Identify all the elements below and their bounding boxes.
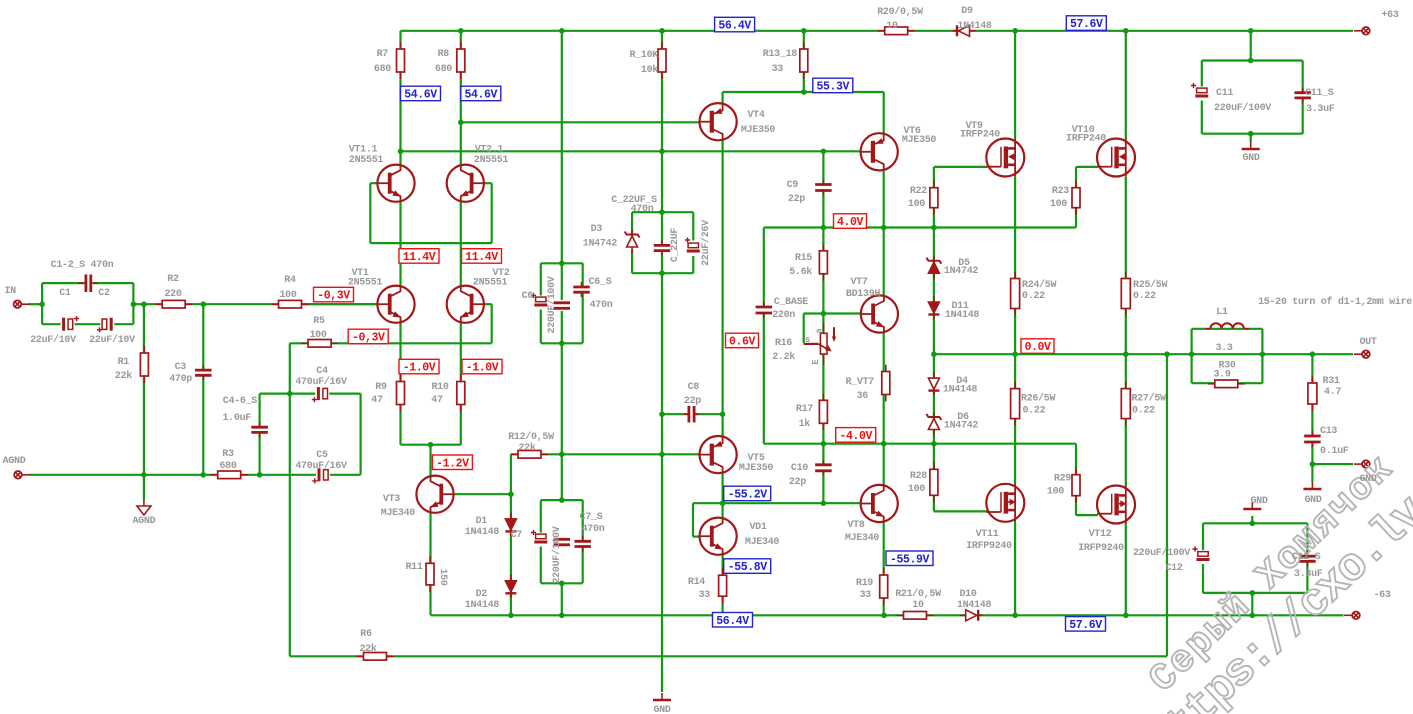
svg-text:VT1.1: VT1.1 bbox=[349, 145, 378, 156]
svg-text:MJE350: MJE350 bbox=[739, 463, 774, 474]
svg-text:220UF/100V: 220UF/100V bbox=[551, 526, 563, 583]
svg-text:C4: C4 bbox=[316, 366, 328, 377]
svg-text:33: 33 bbox=[860, 590, 872, 601]
svg-text:-0,3V: -0,3V bbox=[352, 332, 385, 345]
svg-text:GND: GND bbox=[1359, 474, 1376, 485]
svg-text:R16: R16 bbox=[775, 338, 792, 349]
svg-text:C1-2_S 470n: C1-2_S 470n bbox=[51, 260, 114, 271]
svg-text:470uF/16V: 470uF/16V bbox=[295, 376, 347, 388]
svg-text:R22: R22 bbox=[910, 186, 927, 197]
svg-text:R28: R28 bbox=[910, 471, 927, 482]
svg-text:VT4: VT4 bbox=[747, 110, 764, 121]
svg-text:-1.0V: -1.0V bbox=[403, 362, 436, 375]
svg-text:1N4742: 1N4742 bbox=[944, 421, 979, 432]
svg-text:2N5551: 2N5551 bbox=[349, 155, 384, 166]
svg-text:2.2k: 2.2k bbox=[772, 351, 795, 363]
svg-text:IRFP9240: IRFP9240 bbox=[1078, 543, 1124, 554]
svg-text:47: 47 bbox=[431, 395, 443, 406]
svg-text:4.7: 4.7 bbox=[1324, 387, 1341, 398]
svg-text:VT3: VT3 bbox=[383, 494, 400, 505]
svg-text:470p: 470p bbox=[169, 374, 192, 385]
svg-text:C5: C5 bbox=[316, 450, 328, 461]
svg-text:E: E bbox=[811, 359, 821, 365]
svg-text:R29: R29 bbox=[1054, 474, 1071, 485]
svg-text:1N4742: 1N4742 bbox=[944, 266, 979, 277]
svg-text:GND: GND bbox=[1250, 496, 1267, 507]
svg-text:C13: C13 bbox=[1320, 426, 1337, 437]
svg-text:C7: C7 bbox=[511, 530, 523, 541]
svg-text:-1.2V: -1.2V bbox=[436, 457, 469, 470]
svg-text:-1.0V: -1.0V bbox=[466, 362, 499, 375]
svg-text:C2: C2 bbox=[98, 288, 110, 299]
svg-text:OUT: OUT bbox=[1359, 337, 1376, 348]
svg-text:VT8: VT8 bbox=[847, 520, 864, 531]
svg-text:C12: C12 bbox=[1165, 563, 1182, 574]
svg-text:VD1: VD1 bbox=[749, 522, 766, 533]
svg-text:C8: C8 bbox=[688, 382, 700, 393]
svg-text:R_10K: R_10K bbox=[629, 50, 658, 61]
svg-text:MJE350: MJE350 bbox=[741, 125, 776, 136]
svg-text:IRFP240: IRFP240 bbox=[960, 130, 1000, 141]
svg-text:56.4V: 56.4V bbox=[718, 20, 751, 33]
svg-text:1N4148: 1N4148 bbox=[465, 527, 500, 538]
svg-text:100: 100 bbox=[1047, 487, 1064, 498]
svg-text:R_VT7: R_VT7 bbox=[845, 377, 874, 388]
svg-text:C10: C10 bbox=[791, 463, 808, 474]
svg-text:R23: R23 bbox=[1052, 186, 1069, 197]
svg-text:R10: R10 bbox=[431, 382, 448, 393]
svg-text:680: 680 bbox=[374, 64, 391, 75]
svg-text:150: 150 bbox=[437, 568, 448, 585]
svg-text:22p: 22p bbox=[789, 477, 806, 488]
svg-text:R24/5W: R24/5W bbox=[1022, 279, 1057, 291]
svg-text:C4-6_S: C4-6_S bbox=[223, 396, 258, 407]
svg-text:R3: R3 bbox=[222, 449, 234, 460]
svg-text:GND: GND bbox=[1242, 153, 1259, 164]
svg-text:1k: 1k bbox=[799, 418, 811, 430]
svg-text:R12/0,5W: R12/0,5W bbox=[508, 431, 554, 443]
svg-text:100: 100 bbox=[309, 330, 326, 341]
svg-text:0.22: 0.22 bbox=[1022, 291, 1045, 302]
svg-text:R15: R15 bbox=[795, 253, 812, 264]
svg-text:470n: 470n bbox=[582, 524, 605, 535]
svg-text:-4.0V: -4.0V bbox=[839, 430, 872, 443]
svg-text:D3: D3 bbox=[591, 224, 603, 235]
svg-text:220UF/100V: 220UF/100V bbox=[546, 276, 558, 333]
svg-text:100: 100 bbox=[279, 290, 296, 301]
svg-text:11.4V: 11.4V bbox=[403, 251, 436, 264]
svg-text:1N4148: 1N4148 bbox=[465, 600, 500, 611]
svg-text:54.6V: 54.6V bbox=[404, 89, 437, 102]
svg-text:R11: R11 bbox=[405, 562, 422, 573]
svg-text:0.0V: 0.0V bbox=[1024, 341, 1051, 354]
svg-text:57.6V: 57.6V bbox=[1070, 18, 1103, 31]
svg-text:11.4V: 11.4V bbox=[465, 251, 498, 264]
svg-text:680: 680 bbox=[435, 64, 452, 75]
svg-text:C12_S: C12_S bbox=[1292, 552, 1321, 563]
svg-text:R21/0,5W: R21/0,5W bbox=[895, 588, 941, 600]
svg-text:220uF/100V: 220uF/100V bbox=[1214, 102, 1271, 114]
svg-text:5.6k: 5.6k bbox=[789, 266, 812, 278]
svg-text:R25/5W: R25/5W bbox=[1133, 279, 1168, 291]
svg-text:2N5551: 2N5551 bbox=[473, 278, 508, 289]
svg-text:L1: L1 bbox=[1216, 307, 1228, 318]
svg-text:R20/0,5W: R20/0,5W bbox=[877, 6, 923, 18]
svg-text:2N5551: 2N5551 bbox=[348, 278, 383, 289]
svg-text:VT7: VT7 bbox=[850, 277, 867, 288]
svg-text:3.9: 3.9 bbox=[1213, 370, 1230, 381]
svg-text:3.3uF: 3.3uF bbox=[1306, 104, 1335, 115]
svg-text:C6_S: C6_S bbox=[589, 277, 612, 288]
svg-text:15-20 turn of d1-1,2mm wire: 15-20 turn of d1-1,2mm wire bbox=[1258, 296, 1412, 308]
svg-text:33: 33 bbox=[699, 590, 711, 601]
svg-text:3.3: 3.3 bbox=[1215, 343, 1232, 354]
svg-text:a: a bbox=[815, 328, 825, 334]
svg-text:3.3uF: 3.3uF bbox=[1294, 569, 1323, 580]
svg-text:54.6V: 54.6V bbox=[465, 89, 498, 102]
svg-text:C6: C6 bbox=[522, 291, 534, 302]
svg-text:47: 47 bbox=[371, 395, 383, 406]
svg-text:R5: R5 bbox=[313, 316, 325, 327]
svg-text:0.22: 0.22 bbox=[1133, 291, 1156, 302]
svg-text:C1: C1 bbox=[59, 288, 71, 299]
svg-text:MJE350: MJE350 bbox=[902, 135, 937, 146]
svg-text:D9: D9 bbox=[961, 6, 973, 17]
svg-text:R7: R7 bbox=[377, 49, 389, 60]
svg-text:C9: C9 bbox=[787, 180, 799, 191]
svg-text:0.1uF: 0.1uF bbox=[1320, 446, 1349, 457]
svg-text:s: s bbox=[805, 335, 810, 345]
svg-text:470n: 470n bbox=[590, 300, 613, 311]
svg-text:VT11: VT11 bbox=[976, 529, 999, 540]
svg-text:10: 10 bbox=[886, 21, 898, 32]
svg-text:0.6V: 0.6V bbox=[729, 336, 756, 349]
svg-text:R27/5W: R27/5W bbox=[1132, 393, 1167, 405]
svg-text:4.0V: 4.0V bbox=[837, 216, 864, 229]
svg-text:D2: D2 bbox=[476, 589, 488, 600]
svg-text:1N4148: 1N4148 bbox=[945, 310, 980, 321]
svg-text:MJE340: MJE340 bbox=[381, 508, 416, 519]
svg-text:IRFP240: IRFP240 bbox=[1066, 134, 1106, 145]
svg-text:10k: 10k bbox=[641, 64, 658, 76]
svg-text:55.3V: 55.3V bbox=[817, 81, 850, 94]
svg-text:GND: GND bbox=[1304, 495, 1321, 506]
svg-text:C11_S: C11_S bbox=[1305, 88, 1334, 99]
svg-text:470n: 470n bbox=[631, 204, 654, 215]
svg-text:-55.8V: -55.8V bbox=[728, 561, 768, 574]
svg-text:33: 33 bbox=[772, 64, 784, 75]
svg-text:680: 680 bbox=[219, 461, 236, 472]
svg-text:IRFP9240: IRFP9240 bbox=[966, 541, 1012, 552]
svg-text:10: 10 bbox=[912, 600, 924, 611]
svg-text:1N4742: 1N4742 bbox=[583, 239, 618, 250]
svg-text:-55.2V: -55.2V bbox=[728, 489, 768, 502]
svg-text:-0,3V: -0,3V bbox=[317, 290, 350, 303]
svg-text:AGND: AGND bbox=[132, 516, 155, 527]
svg-text:D1: D1 bbox=[476, 516, 488, 527]
svg-text:1.0uF: 1.0uF bbox=[222, 413, 251, 424]
svg-text:R19: R19 bbox=[856, 578, 873, 589]
svg-text:MJE340: MJE340 bbox=[845, 533, 880, 544]
svg-text:22uF/10V: 22uF/10V bbox=[30, 334, 76, 346]
svg-text:C11: C11 bbox=[1216, 88, 1233, 99]
svg-text:GND: GND bbox=[653, 705, 670, 714]
svg-text:22k: 22k bbox=[115, 370, 132, 382]
svg-text:36: 36 bbox=[857, 391, 869, 402]
svg-text:-63: -63 bbox=[1373, 590, 1390, 601]
svg-text:R14: R14 bbox=[688, 577, 705, 588]
svg-text:0.22: 0.22 bbox=[1132, 406, 1155, 417]
svg-text:22uF/10V: 22uF/10V bbox=[89, 334, 135, 346]
svg-text:1N4148: 1N4148 bbox=[943, 385, 978, 396]
svg-text:C_22UF: C_22UF bbox=[670, 228, 681, 263]
svg-text:100: 100 bbox=[1050, 199, 1067, 210]
svg-text:R1: R1 bbox=[118, 357, 130, 368]
svg-text:220uF/100V: 220uF/100V bbox=[1133, 547, 1190, 559]
svg-text:22uF/26V: 22uF/26V bbox=[700, 220, 712, 266]
svg-text:R26/5W: R26/5W bbox=[1021, 393, 1056, 405]
svg-text:VT2.1: VT2.1 bbox=[475, 145, 504, 156]
svg-text:470uF/16V: 470uF/16V bbox=[295, 460, 347, 472]
svg-text:2N5551: 2N5551 bbox=[474, 155, 509, 166]
svg-text:C3: C3 bbox=[175, 362, 187, 373]
svg-text:BD139H: BD139H bbox=[846, 289, 881, 300]
svg-text:1N4148: 1N4148 bbox=[957, 600, 992, 611]
svg-text:220n: 220n bbox=[772, 310, 795, 321]
svg-text:57.6V: 57.6V bbox=[1069, 619, 1102, 632]
svg-text:C7_S: C7_S bbox=[580, 512, 603, 523]
svg-text:R17: R17 bbox=[796, 404, 813, 415]
svg-text:1N4148: 1N4148 bbox=[957, 21, 992, 32]
svg-text:VT12: VT12 bbox=[1089, 529, 1112, 540]
svg-text:+63: +63 bbox=[1381, 10, 1398, 21]
svg-text:0.22: 0.22 bbox=[1023, 406, 1046, 417]
svg-text:56.4V: 56.4V bbox=[716, 615, 749, 628]
svg-text:220: 220 bbox=[164, 289, 181, 300]
svg-text:R6: R6 bbox=[360, 629, 372, 640]
svg-text:22p: 22p bbox=[788, 194, 805, 205]
svg-text:R13_18: R13_18 bbox=[763, 49, 798, 60]
svg-text:R9: R9 bbox=[375, 382, 387, 393]
svg-text:MJE340: MJE340 bbox=[745, 537, 780, 548]
svg-text:100: 100 bbox=[908, 484, 925, 495]
svg-text:R4: R4 bbox=[284, 275, 296, 286]
svg-text:100: 100 bbox=[908, 199, 925, 210]
svg-text:R8: R8 bbox=[438, 49, 450, 60]
svg-text:22k: 22k bbox=[359, 643, 376, 655]
svg-text:R31: R31 bbox=[1323, 376, 1340, 387]
svg-text:22p: 22p bbox=[684, 396, 701, 407]
svg-text:D10: D10 bbox=[959, 589, 976, 600]
svg-text:-55.9V: -55.9V bbox=[890, 553, 930, 566]
svg-text:R2: R2 bbox=[167, 274, 179, 285]
svg-text:22k: 22k bbox=[518, 442, 535, 454]
svg-text:C_BASE: C_BASE bbox=[774, 297, 809, 308]
svg-text:IN: IN bbox=[4, 286, 16, 297]
svg-text:AGND: AGND bbox=[3, 456, 26, 467]
